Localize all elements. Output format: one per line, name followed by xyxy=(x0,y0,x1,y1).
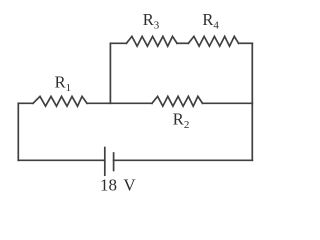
wire: bottom right segment from battery xyxy=(114,159,253,161)
battery 18 V : long plate xyxy=(104,148,106,176)
wire: top segment R3 to R4 xyxy=(177,42,188,44)
resistor R3 xyxy=(126,36,177,46)
svg-text:R4: R4 xyxy=(202,10,219,32)
wire: junction vertical up to top branch xyxy=(109,43,111,103)
svg-text:V: V xyxy=(123,176,136,195)
svg-text:R3: R3 xyxy=(143,10,160,32)
wire: top right lead from R4 xyxy=(239,42,253,44)
wire: bottom left segment to battery xyxy=(18,159,105,161)
wire: middle-left lead into R1 xyxy=(18,102,33,104)
svg-text:R2: R2 xyxy=(173,110,190,132)
wire: middle segment R1 to R2 through node xyxy=(87,102,152,104)
svg-text:R1: R1 xyxy=(55,73,72,95)
resistor R2 xyxy=(152,96,203,106)
svg-text:18: 18 xyxy=(100,176,117,195)
battery 18 V : short plate xyxy=(113,153,115,171)
wire: middle right lead from R2 xyxy=(203,102,253,104)
resistor R1 xyxy=(33,96,87,106)
wire: left vertical branch xyxy=(17,103,19,160)
wire: right vertical branch xyxy=(251,43,253,160)
wire: top lead into R3 xyxy=(110,42,126,44)
resistor R4 xyxy=(188,36,238,46)
